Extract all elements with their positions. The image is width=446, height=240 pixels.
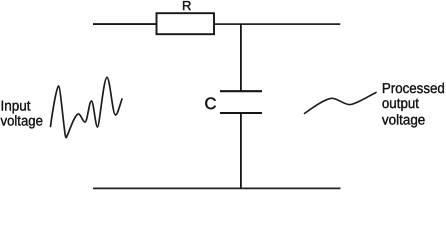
wire capacitor bottom to rail [240,113,242,188]
wire junction to capacitor top [240,24,242,92]
wire top-right segment [214,23,340,25]
svg-text:R: R [182,0,191,13]
svg-text:Input voltage: Input voltage [1,99,43,130]
svg-text:C: C [205,95,217,113]
wire bottom rail [93,187,341,189]
resistor R [157,13,215,34]
input waveform [51,77,123,137]
output waveform [305,93,377,114]
capacitor C [220,91,262,113]
wire top-left segment [93,23,157,25]
svg-text:Processed output volta: Processed output voltage [382,81,446,128]
